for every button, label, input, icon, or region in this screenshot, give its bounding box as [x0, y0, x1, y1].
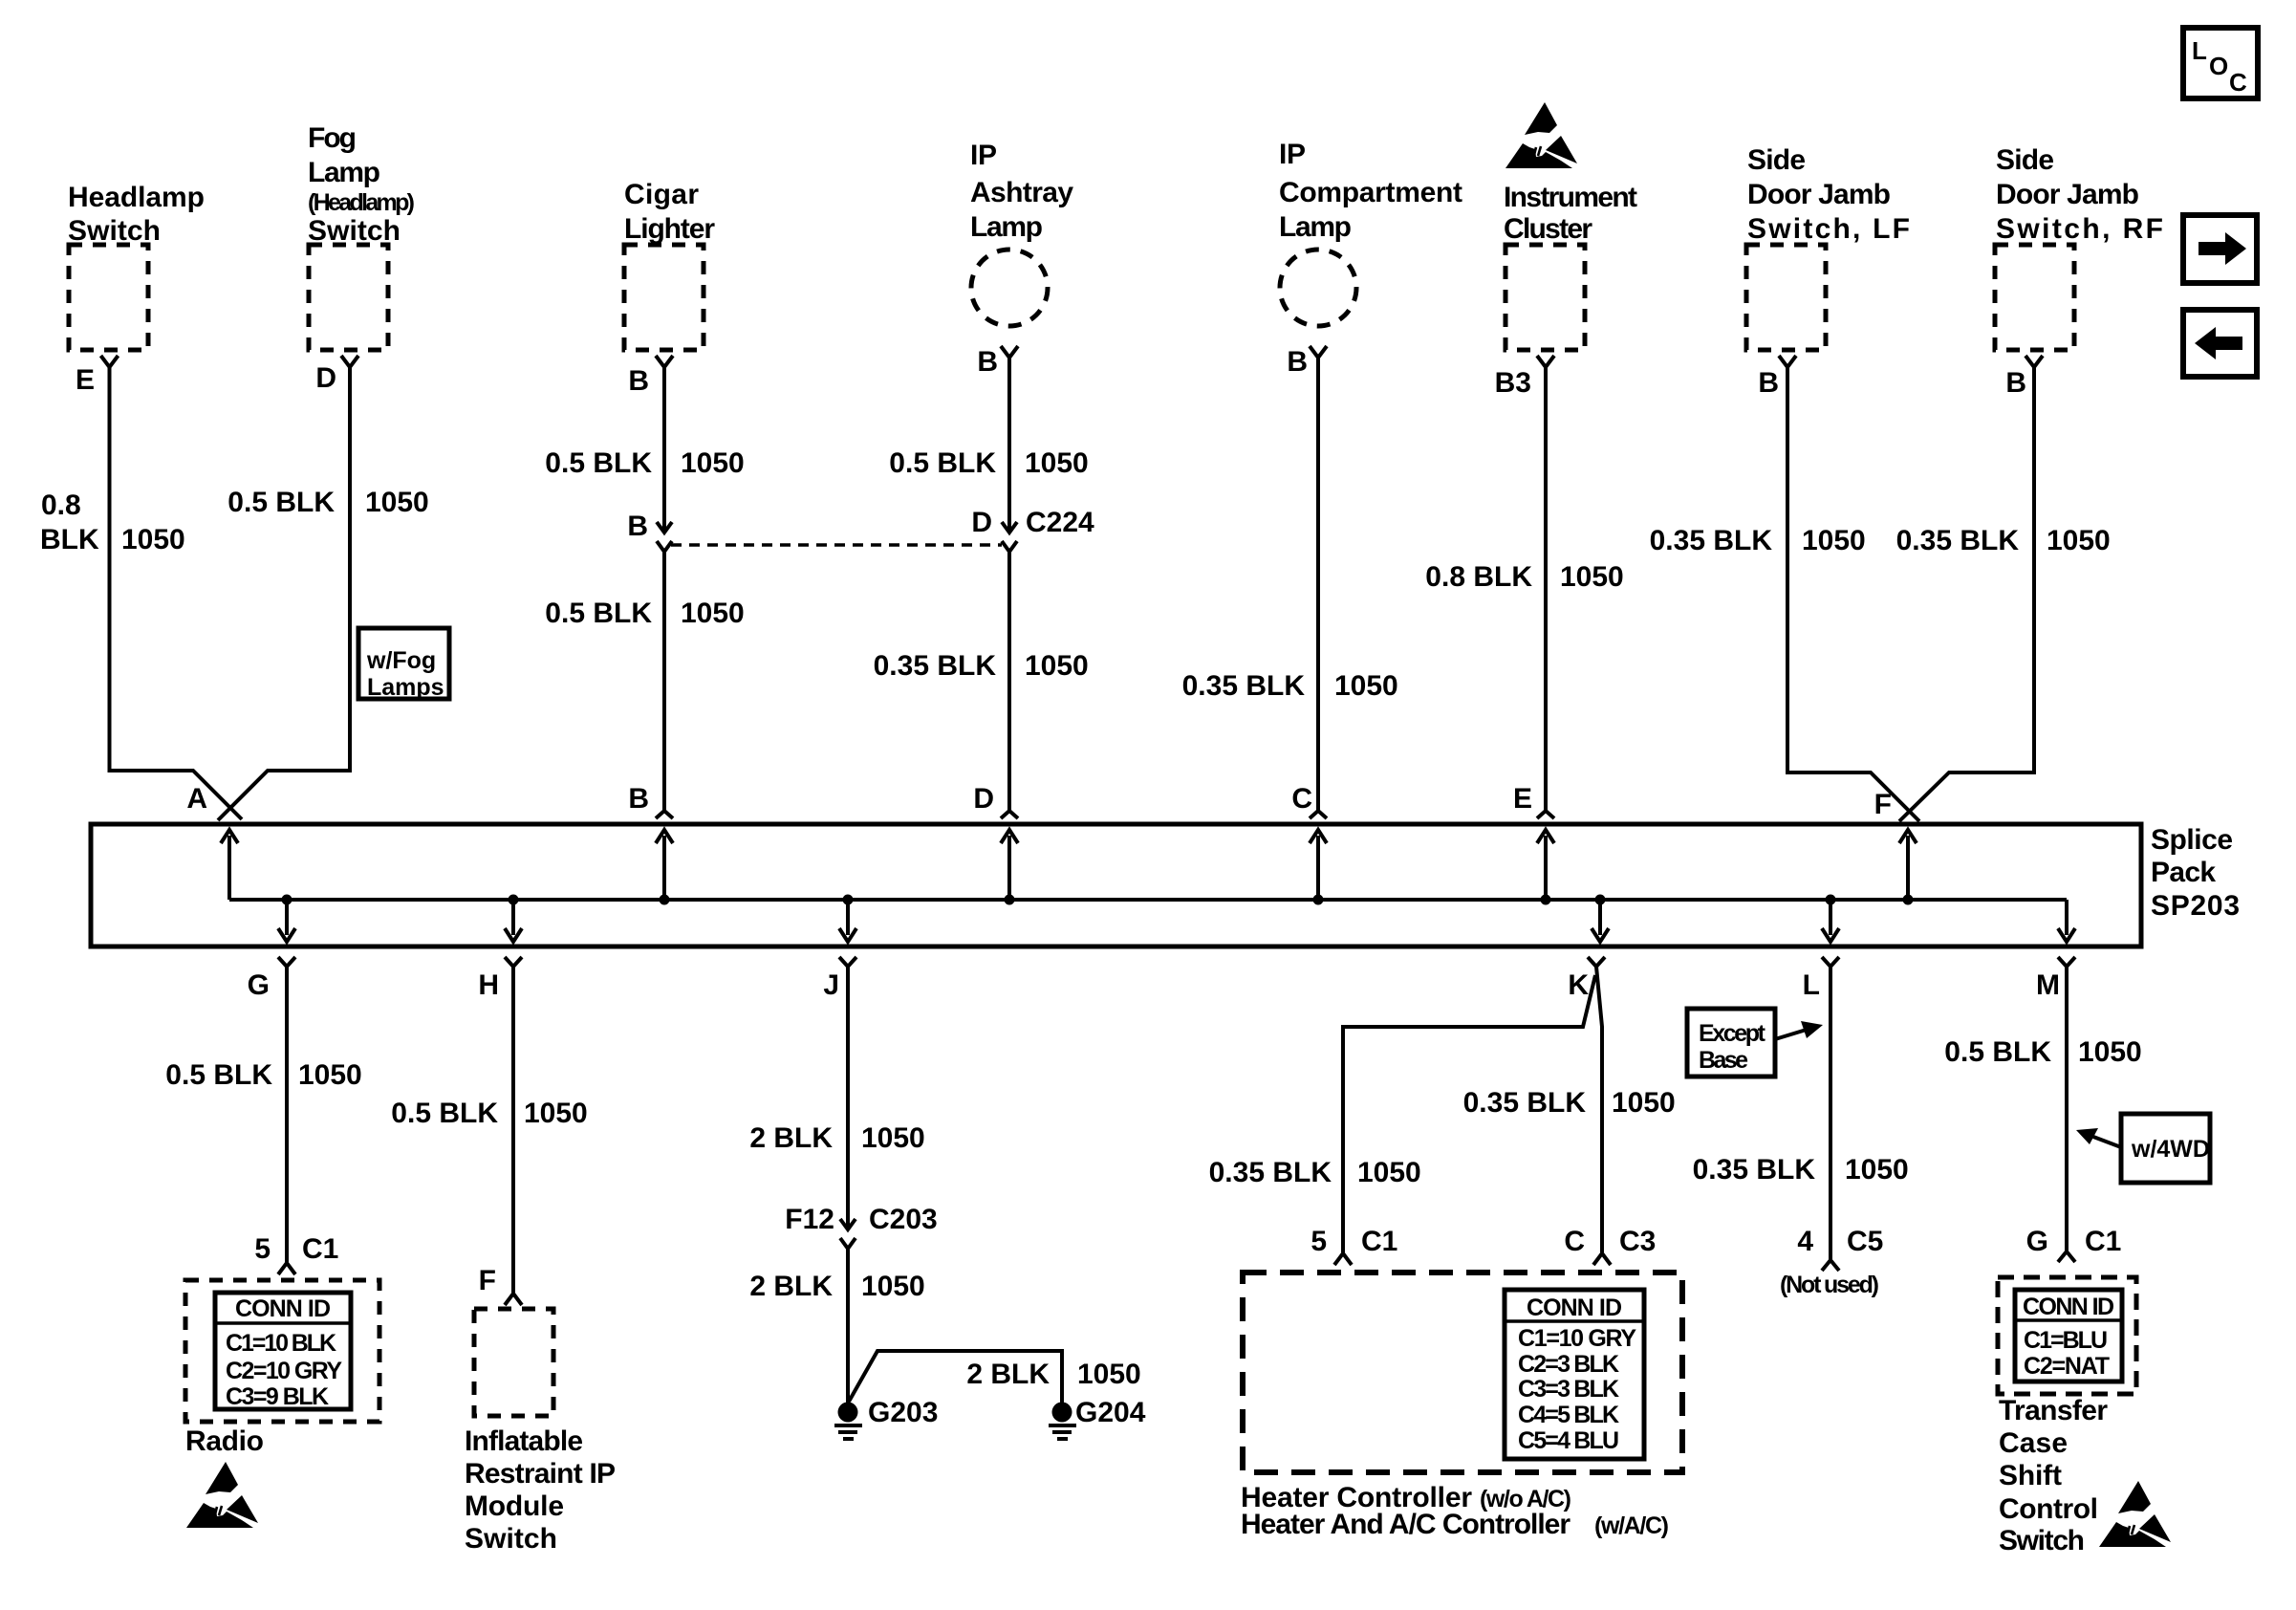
wire label 0.5 BLK 1050: [545, 447, 744, 479]
node H drop wire: [511, 900, 515, 935]
node K arrowhead: [1592, 928, 1609, 942]
wire D: fog switch to splice A: [218, 367, 350, 820]
transfer case connector chevron: [2058, 1251, 2075, 1262]
svg-text:M: M: [2036, 969, 2060, 1001]
svg-text:2 BLK: 2 BLK: [966, 1359, 1050, 1390]
svg-text:1050: 1050: [1334, 670, 1398, 702]
svg-text:G: G: [2026, 1226, 2048, 1257]
pin 4 / C5 labels: [1797, 1226, 1883, 1257]
node K connector chevron: [1588, 957, 1605, 967]
svg-text:2 BLK: 2 BLK: [749, 1271, 833, 1302]
node G connector chevron: [278, 957, 295, 967]
wire label 0.35 BLK 1050 (L): [1693, 1154, 1909, 1186]
svg-text:0.5 BLK: 0.5 BLK: [1944, 1036, 2051, 1068]
pin 5 / C1 labels: [1310, 1226, 1397, 1257]
svg-text:Compartment: Compartment: [1279, 177, 1462, 208]
svg-text:C: C: [1564, 1226, 1585, 1257]
node J drop wire: [846, 900, 850, 935]
svg-text:CONN ID: CONN ID: [235, 1295, 331, 1322]
svg-text:G204: G204: [1075, 1397, 1146, 1428]
wire H: splice to inflatable restraint module switch: [511, 967, 515, 1293]
svg-text:F: F: [1874, 789, 1892, 820]
node A riser wire: [227, 836, 231, 900]
svg-text:1050: 1050: [1612, 1087, 1676, 1119]
junction dot F: [1903, 895, 1914, 905]
headlamp switch label: [68, 182, 205, 247]
arrowhead down at C224: [1002, 522, 1017, 533]
inflatable connector chevron: [505, 1294, 522, 1305]
svg-text:Switch: Switch: [68, 215, 161, 247]
svg-text:Door Jamb: Door Jamb: [1747, 179, 1891, 210]
svg-text:Switch: Switch: [308, 215, 401, 247]
wire: cigar joint to splice B: [662, 552, 666, 811]
svg-text:D: D: [973, 783, 994, 815]
svg-text:C2=10 GRY: C2=10 GRY: [226, 1358, 342, 1384]
svg-text:Fog: Fog: [308, 122, 357, 154]
pin 5 / C1 labels: [254, 1233, 338, 1265]
transfer case CONN ID table: [2015, 1290, 2122, 1382]
svg-text:0.35 BLK: 0.35 BLK: [874, 650, 997, 682]
wire label 0.5 BLK 1050: [227, 487, 428, 518]
svg-text:Except: Except: [1699, 1020, 1766, 1047]
svg-text:1050: 1050: [1845, 1154, 1909, 1186]
arrowhead down at joint: [657, 522, 672, 533]
svg-text:D: D: [971, 507, 992, 538]
fog lamp switch label: [308, 122, 415, 247]
wire label 0.8 BLK 1050: [1425, 561, 1623, 593]
node C arrowhead: [1310, 830, 1327, 843]
headlamp switch box: [69, 245, 148, 350]
svg-text:O: O: [2209, 52, 2228, 80]
svg-text:Switch, LF: Switch, LF: [1747, 213, 1910, 245]
svg-text:C1: C1: [2085, 1226, 2121, 1257]
wire label 0.35 BLK 1050: [1650, 525, 1866, 556]
heater connector chevron 5/C1: [1334, 1253, 1352, 1265]
hotlink left-arrow box: [2183, 310, 2257, 377]
svg-text:B: B: [977, 346, 998, 378]
ESD symbol beside transfer case label: [2099, 1481, 2171, 1547]
svg-text:C3=3 BLK: C3=3 BLK: [1518, 1376, 1619, 1403]
side door jamb RF box: [1995, 245, 2074, 350]
node M drop wire: [2065, 900, 2069, 935]
svg-text:0.35 BLK: 0.35 BLK: [1182, 670, 1306, 702]
svg-text:5: 5: [1310, 1226, 1327, 1257]
ESD symbol above instrument cluster: [1505, 102, 1577, 168]
Except Base note box: [1687, 1009, 1775, 1077]
instrument connector chevron B3: [1537, 356, 1554, 367]
svg-text:Switch: Switch: [465, 1523, 557, 1555]
svg-text:1050: 1050: [365, 487, 429, 518]
svg-text:IP: IP: [970, 140, 997, 171]
chevron below C203: [840, 1238, 856, 1249]
radio box: [185, 1280, 379, 1422]
svg-text:0.5 BLK: 0.5 BLK: [391, 1098, 498, 1129]
svg-text:C2=NAT: C2=NAT: [2024, 1353, 2110, 1380]
svg-text:K: K: [1568, 969, 1589, 1001]
side door jamb LF box: [1746, 245, 1826, 350]
branch wire to G204: [849, 1351, 1062, 1403]
svg-text:J: J: [823, 969, 839, 1001]
connector F12 / C203 labels: [785, 1204, 937, 1235]
junction dot L: [1826, 895, 1836, 905]
junction dot E: [1541, 895, 1551, 905]
compartment connector chevron B: [1310, 346, 1327, 358]
node L connector chevron: [1822, 957, 1839, 967]
wire label 0.5 BLK 1050: [889, 447, 1088, 479]
svg-text:Side: Side: [1747, 144, 1806, 176]
svg-text:C224: C224: [1026, 507, 1094, 538]
svg-text:Lamp: Lamp: [970, 211, 1043, 243]
junction dot K: [1595, 895, 1606, 905]
svg-text:G: G: [248, 969, 270, 1001]
ashtray connector chevron B: [1001, 346, 1018, 358]
arrowhead down at C203: [840, 1219, 856, 1229]
svg-text:2 BLK: 2 BLK: [749, 1122, 833, 1154]
wire label 0.35 BLK 1050: [874, 650, 1089, 682]
svg-text:C3: C3: [1619, 1226, 1656, 1257]
svg-text:SP203: SP203: [2151, 890, 2240, 922]
svg-text:C: C: [1291, 783, 1312, 815]
svg-text:C5: C5: [1847, 1226, 1883, 1257]
chevron below C224: [1002, 541, 1017, 552]
svg-text:B: B: [628, 365, 649, 397]
wire label 0.35 BLK 1050 (branch): [1209, 1157, 1421, 1188]
node L arrowhead: [1822, 928, 1839, 942]
w/4WD note box: [2121, 1114, 2210, 1183]
svg-text:1050: 1050: [1357, 1157, 1421, 1188]
ground G203: [834, 1403, 862, 1442]
LF connector chevron B: [1779, 356, 1796, 367]
svg-text:0.8 BLK: 0.8 BLK: [1425, 561, 1532, 593]
svg-text:B: B: [1287, 346, 1308, 378]
wire: ashtray to C224 joint: [1007, 358, 1011, 532]
junction dot G: [282, 895, 292, 905]
node F riser wire: [1906, 836, 1910, 900]
svg-text:IP: IP: [1279, 139, 1306, 170]
svg-text:Base: Base: [1699, 1047, 1748, 1074]
svg-text:Lamp: Lamp: [308, 157, 380, 188]
splice pack SP203 body: [91, 824, 2141, 946]
junction dot B: [660, 895, 670, 905]
wire M: splice to transfer case switch: [2065, 967, 2069, 1251]
svg-text:Lamp: Lamp: [1279, 211, 1352, 243]
node E riser wire: [1544, 836, 1548, 900]
svg-text:A: A: [186, 783, 207, 815]
svg-text:0.5 BLK: 0.5 BLK: [227, 487, 335, 518]
svg-text:0.35 BLK: 0.35 BLK: [1693, 1154, 1816, 1186]
svg-text:Heater And A/C Controller: Heater And A/C Controller: [1241, 1509, 1570, 1540]
node B arrowhead: [656, 830, 673, 843]
heater CONN ID table: [1505, 1290, 1644, 1459]
node J connector chevron: [839, 957, 856, 967]
wire: C224 to splice D: [1007, 552, 1011, 811]
svg-text:1050: 1050: [2047, 525, 2111, 556]
connector D / C224 labels: [971, 507, 1094, 538]
inflatable restraint label: [465, 1425, 616, 1555]
svg-text:C3=9 BLK: C3=9 BLK: [226, 1383, 329, 1410]
svg-text:C1: C1: [302, 1233, 338, 1265]
node A arrowhead: [221, 830, 238, 843]
node D arrowhead: [1001, 830, 1018, 843]
svg-text:L: L: [1803, 969, 1820, 1001]
svg-text:0.35 BLK: 0.35 BLK: [1650, 525, 1773, 556]
wire label 2 BLK 1050: [749, 1271, 924, 1302]
svg-text:Case: Case: [1999, 1427, 2068, 1459]
wire label 0.35 BLK 1050 (K): [1463, 1087, 1676, 1119]
heater connector chevron C/C3: [1593, 1253, 1611, 1265]
arrow from Except Base to wire L: [1775, 1029, 1809, 1039]
w/Fog Lamps note box: [358, 628, 449, 699]
svg-text:E: E: [1513, 783, 1532, 815]
heater controller names: [1241, 1482, 1669, 1540]
svg-text:1050: 1050: [121, 524, 185, 555]
node C connector chevron: [1310, 811, 1327, 818]
svg-text:1050: 1050: [861, 1271, 925, 1302]
side door jamb LF label: [1747, 144, 1910, 245]
svg-text:C4=5 BLK: C4=5 BLK: [1518, 1402, 1619, 1428]
svg-text:Restraint IP: Restraint IP: [465, 1458, 616, 1490]
wire: instrument cluster to splice E: [1544, 367, 1548, 811]
IP ashtray lamp label: [970, 140, 1073, 243]
svg-text:0.5 BLK: 0.5 BLK: [545, 598, 652, 629]
svg-text:Door Jamb: Door Jamb: [1996, 179, 2139, 210]
svg-text:0.35 BLK: 0.35 BLK: [1209, 1157, 1332, 1188]
node H connector chevron: [505, 957, 522, 967]
svg-text:E: E: [76, 364, 95, 396]
node M connector chevron: [2058, 957, 2075, 967]
node K drop wire: [1598, 900, 1602, 935]
svg-text:Radio: Radio: [185, 1425, 264, 1457]
node J arrowhead: [839, 928, 856, 942]
cigar connector chevron B: [656, 356, 673, 367]
SECTION: splice pack: [91, 783, 2240, 1001]
svg-text:C1=10 BLK: C1=10 BLK: [226, 1330, 336, 1357]
wire label 2 BLK 1050: [966, 1359, 1140, 1390]
junction dot H: [509, 895, 519, 905]
LOC legend box: [2183, 28, 2258, 98]
svg-text:B: B: [627, 511, 648, 542]
fog connector chevron D: [341, 356, 358, 367]
RF connector chevron B: [2025, 356, 2043, 367]
svg-text:BLK: BLK: [40, 524, 99, 555]
wire label 0.35 BLK 1050: [1896, 525, 2111, 556]
IP compartment lamp label: [1279, 139, 1462, 243]
svg-text:Lighter: Lighter: [624, 213, 715, 245]
svg-text:1050: 1050: [681, 598, 745, 629]
wire: LF switch to splice F: [1787, 367, 1919, 821]
headlamp connector chevron E: [101, 356, 119, 367]
ground G204: [1049, 1403, 1076, 1442]
svg-text:w/Fog: w/Fog: [366, 647, 436, 674]
wire L: splice to not-used C5: [1829, 967, 1832, 1259]
ESD symbol below radio: [186, 1462, 258, 1528]
svg-text:1050: 1050: [1560, 561, 1624, 593]
svg-text:C2=3 BLK: C2=3 BLK: [1518, 1351, 1619, 1378]
radio connector chevron: [278, 1263, 295, 1274]
wire label 0.5 BLK 1050: [545, 598, 744, 629]
svg-text:Inflatable: Inflatable: [465, 1425, 583, 1457]
instrument cluster label: [1504, 182, 1637, 245]
svg-text:Shift: Shift: [1999, 1460, 2062, 1491]
wire: RF switch to splice F: [1899, 367, 2034, 821]
wire label 0.5 BLK 1050 (M): [1944, 1036, 2141, 1068]
svg-text:CONN ID: CONN ID: [1527, 1295, 1622, 1321]
SECTION: bottom components: [165, 967, 2210, 1556]
wire label 0.8 BLK 1050: [40, 490, 185, 555]
node F arrowhead: [1899, 830, 1917, 843]
wire: cigar lighter down to C224 joint: [662, 367, 666, 532]
side door jamb RF label: [1996, 144, 2163, 245]
svg-text:H: H: [478, 969, 499, 1001]
heater controller box: [1243, 1273, 1682, 1472]
fog lamp switch box: [309, 245, 388, 350]
svg-text:Module: Module: [465, 1490, 564, 1522]
svg-text:(w/A/C): (w/A/C): [1594, 1512, 1669, 1539]
svg-text:C5=4 BLU: C5=4 BLU: [1518, 1427, 1619, 1454]
branch from K to heater 5/C1: [1343, 975, 1595, 1252]
transfer case box: [1998, 1277, 2136, 1394]
cigar lighter box: [624, 245, 704, 350]
svg-text:1050: 1050: [1025, 650, 1089, 682]
wire label 0.5 BLK 1050: [165, 1059, 361, 1091]
svg-text:0.5 BLK: 0.5 BLK: [165, 1059, 272, 1091]
node E arrowhead: [1537, 830, 1554, 843]
svg-text:0.5 BLK: 0.5 BLK: [545, 447, 652, 479]
svg-text:Cluster: Cluster: [1504, 213, 1592, 245]
svg-text:C1: C1: [1361, 1226, 1397, 1257]
svg-text:(Not used): (Not used): [1780, 1272, 1879, 1298]
svg-text:Switch: Switch: [1999, 1525, 2085, 1556]
wire label 0.35 BLK 1050: [1182, 670, 1398, 702]
svg-text:F: F: [479, 1265, 496, 1296]
svg-text:Ashtray: Ashtray: [970, 177, 1073, 208]
wire: compartment lamp to splice C: [1316, 358, 1320, 811]
IP compartment lamp circle: [1280, 250, 1356, 326]
svg-text:Switch, RF: Switch, RF: [1996, 213, 2163, 245]
svg-text:1050: 1050: [681, 447, 745, 479]
svg-text:B: B: [2005, 367, 2026, 399]
svg-text:C1=BLU: C1=BLU: [2024, 1327, 2108, 1354]
pin C / C3 labels: [1564, 1226, 1656, 1257]
svg-text:0.8: 0.8: [41, 490, 81, 521]
wire J: splice to C203: [846, 967, 850, 1229]
cigar lighter label: [624, 179, 715, 245]
node G arrowhead: [278, 928, 295, 942]
svg-text:1050: 1050: [298, 1059, 362, 1091]
svg-text:1050: 1050: [1025, 447, 1089, 479]
svg-text:0.35 BLK: 0.35 BLK: [1896, 525, 2020, 556]
svg-text:w/4WD: w/4WD: [2131, 1136, 2210, 1163]
svg-text:C203: C203: [869, 1204, 938, 1235]
svg-text:(Headlamp): (Headlamp): [308, 189, 415, 216]
svg-text:4: 4: [1797, 1226, 1813, 1257]
svg-text:C1=10 GRY: C1=10 GRY: [1518, 1325, 1636, 1352]
svg-text:1050: 1050: [861, 1122, 925, 1154]
junction dot C: [1313, 895, 1324, 905]
svg-text:Pack: Pack: [2151, 857, 2216, 888]
svg-text:1050: 1050: [2078, 1036, 2142, 1068]
node G drop wire: [285, 900, 289, 935]
radio CONN ID table: [215, 1293, 351, 1409]
wire K: splice to heater controller C/C3: [1596, 967, 1602, 1252]
IP ashtray lamp circle: [971, 250, 1048, 326]
svg-text:Transfer: Transfer: [1999, 1395, 2108, 1426]
chevron below joint: [657, 541, 672, 552]
svg-text:0.5 BLK: 0.5 BLK: [889, 447, 996, 479]
wire label 0.5 BLK 1050: [391, 1098, 587, 1129]
wire G: splice to radio: [285, 967, 289, 1262]
node B riser wire: [662, 836, 666, 900]
svg-text:Splice: Splice: [2151, 824, 2233, 856]
wire: C203 to ground G203: [846, 1249, 850, 1403]
wire label 2 BLK 1050: [749, 1122, 924, 1154]
svg-text:1050: 1050: [1802, 525, 1866, 556]
wire E: headlamp to splice A: [110, 367, 243, 819]
svg-text:0.35 BLK: 0.35 BLK: [1463, 1087, 1587, 1119]
svg-text:Side: Side: [1996, 144, 2054, 176]
svg-text:B: B: [1758, 367, 1779, 399]
svg-text:B: B: [628, 783, 649, 815]
splice pack internal bus line: [229, 898, 2067, 902]
svg-text:1050: 1050: [524, 1098, 588, 1129]
svg-text:L: L: [2192, 36, 2207, 65]
svg-text:Instrument: Instrument: [1504, 182, 1637, 213]
svg-text:G203: G203: [868, 1397, 938, 1428]
hotlink right-arrow box: [2183, 215, 2257, 283]
transfer case label: [1999, 1395, 2108, 1556]
svg-text:CONN ID: CONN ID: [2023, 1294, 2114, 1320]
dashed link cigar to ashtray C224: [671, 543, 1002, 547]
svg-text:Cigar: Cigar: [624, 179, 699, 210]
svg-text:F12: F12: [785, 1204, 834, 1235]
junction dot D: [1005, 895, 1015, 905]
node L drop wire: [1829, 900, 1832, 935]
instrument cluster box: [1505, 245, 1585, 350]
svg-text:Control: Control: [1999, 1493, 2098, 1525]
svg-text:C: C: [2229, 68, 2247, 97]
arrow from w/4WD to wire M: [2093, 1137, 2121, 1147]
node D riser wire: [1007, 836, 1011, 900]
junction dot J: [843, 895, 854, 905]
node C riser wire: [1316, 836, 1320, 900]
L end chevron: [1822, 1260, 1839, 1271]
node E connector chevron: [1537, 811, 1554, 818]
svg-text:D: D: [315, 362, 336, 394]
node B connector chevron: [656, 811, 673, 818]
splice pack name: [2151, 824, 2240, 922]
node M arrowhead: [2058, 928, 2075, 942]
svg-text:Headlamp: Headlamp: [68, 182, 205, 213]
node H arrowhead: [505, 928, 522, 942]
svg-text:1050: 1050: [1077, 1359, 1141, 1390]
svg-text:Lamps: Lamps: [367, 674, 444, 701]
SECTION: top components: [40, 102, 2163, 821]
pin G / C1 labels: [2026, 1226, 2122, 1257]
svg-text:5: 5: [254, 1233, 271, 1265]
node D connector chevron: [1001, 811, 1018, 818]
inflatable restraint box: [474, 1309, 553, 1416]
svg-text:B3: B3: [1495, 367, 1531, 399]
